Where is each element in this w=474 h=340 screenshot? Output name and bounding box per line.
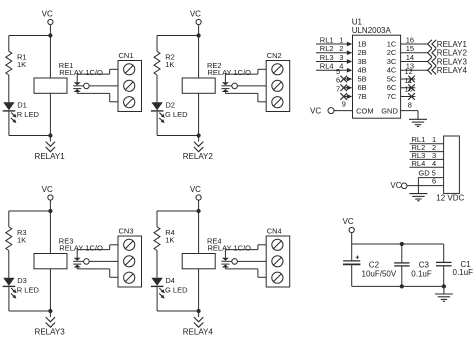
junction node output bbox=[48, 309, 52, 313]
relay common pole bbox=[229, 85, 231, 87]
svg-text:7C: 7C bbox=[387, 92, 397, 101]
net RL1 input wire to U1 pin 1 bbox=[316, 43, 347, 45]
wire coil to output node bbox=[49, 93, 51, 135]
svg-text:6: 6 bbox=[336, 76, 340, 85]
svg-text:RELAY 1C/O: RELAY 1C/O bbox=[59, 68, 103, 77]
CN3 terminal 2 bbox=[124, 256, 135, 267]
relay RE2 coil RELAY 1C/O bbox=[182, 78, 215, 93]
svg-text:7B: 7B bbox=[358, 92, 367, 101]
wire LED cathode to output node bbox=[8, 287, 10, 311]
off-page connector RELAY1 bbox=[49, 136, 51, 142]
capacitor C2 10uF/50V electrolytic bbox=[356, 256, 359, 258]
wire resistor to LED bbox=[8, 251, 10, 278]
svg-text:RELAY1: RELAY1 bbox=[437, 40, 468, 49]
svg-text:RL4: RL4 bbox=[412, 159, 426, 168]
svg-text:VC: VC bbox=[190, 10, 201, 19]
svg-text:5C: 5C bbox=[387, 74, 397, 83]
wire NO contact to connector pin 1 bbox=[77, 249, 110, 251]
wire NO contact to connector pin 1 bbox=[225, 249, 258, 251]
wire LED cathode to output node bbox=[156, 112, 158, 136]
wire top bus bbox=[352, 243, 444, 245]
connector CN4 screw terminal bbox=[266, 236, 290, 287]
svg-text:1K: 1K bbox=[17, 60, 26, 69]
relay common pole bbox=[229, 260, 231, 262]
wire NC contact to connector pin 3 bbox=[77, 268, 110, 270]
svg-text:6B: 6B bbox=[358, 83, 367, 92]
svg-text:9: 9 bbox=[342, 99, 346, 108]
svg-text:U1: U1 bbox=[352, 17, 363, 26]
relay NC contact bbox=[73, 263, 81, 265]
CN4 terminal 1 bbox=[272, 239, 283, 250]
svg-text:RELAY2: RELAY2 bbox=[183, 152, 214, 161]
svg-text:G LED: G LED bbox=[165, 110, 188, 119]
LED D2 G LED bbox=[151, 102, 162, 110]
wire resistor to LED bbox=[8, 75, 10, 102]
wire VC vertical to relay coil bbox=[49, 25, 51, 78]
svg-text:10uF/50V: 10uF/50V bbox=[362, 269, 397, 278]
wire junction to resistor bbox=[9, 210, 51, 212]
U1 pin 7 no-connect bbox=[344, 96, 347, 98]
relay common pole bbox=[81, 260, 83, 262]
wire NO contact to connector pin 1 bbox=[77, 73, 110, 75]
net RL4 input wire to U1 pin 4 bbox=[316, 69, 347, 71]
svg-text:C3: C3 bbox=[419, 260, 430, 269]
svg-text:1C: 1C bbox=[387, 39, 397, 48]
wire VC to COM bbox=[334, 110, 353, 112]
svg-text:5B: 5B bbox=[358, 74, 367, 83]
svg-text:CN1: CN1 bbox=[119, 51, 134, 60]
relay NO contact bbox=[224, 74, 226, 82]
net RL3 input wire to U1 pin 3 bbox=[316, 61, 347, 63]
svg-text:VC: VC bbox=[42, 10, 53, 19]
net RL3 wire to input connector pin 3 bbox=[410, 158, 444, 160]
wire coil to output node bbox=[198, 93, 200, 135]
svg-text:7: 7 bbox=[336, 84, 340, 93]
svg-text:10: 10 bbox=[405, 85, 413, 94]
CN3 terminal 1 bbox=[124, 239, 135, 250]
svg-text:14: 14 bbox=[406, 53, 414, 62]
resistor R3 1K bbox=[6, 227, 12, 251]
ground symbol U1 bbox=[409, 118, 427, 120]
CN1 terminal 3 bbox=[124, 97, 135, 108]
svg-text:VC: VC bbox=[390, 181, 401, 190]
CN2 terminal 3 bbox=[272, 97, 283, 108]
svg-text:VC: VC bbox=[343, 217, 354, 226]
wire VC vertical to relay coil bbox=[49, 200, 51, 253]
connector CN2 screw terminal bbox=[266, 61, 290, 112]
wire U1 GND pin 8 bbox=[401, 110, 418, 112]
capacitor C3 0.1uF bbox=[401, 244, 403, 262]
svg-text:RELAY3: RELAY3 bbox=[437, 57, 468, 66]
svg-text:RELAY 1C/O: RELAY 1C/O bbox=[59, 244, 103, 253]
wire VC to top bus bbox=[351, 233, 353, 261]
U1 pin 5 no-connect bbox=[344, 78, 347, 80]
wire NC contact to connector pin 3 bbox=[225, 92, 258, 94]
svg-text:GND: GND bbox=[381, 107, 398, 116]
svg-text:12: 12 bbox=[405, 67, 413, 76]
U1 pin 12 no-connect bbox=[401, 78, 416, 80]
svg-text:VC: VC bbox=[310, 106, 321, 115]
svg-text:16: 16 bbox=[406, 35, 414, 44]
net RELAY2 output from U1 pin 15 bbox=[401, 52, 428, 54]
svg-text:G LED: G LED bbox=[165, 285, 188, 294]
svg-text:3: 3 bbox=[339, 53, 343, 62]
svg-text:COM: COM bbox=[356, 107, 374, 116]
svg-text:6C: 6C bbox=[387, 83, 397, 92]
svg-text:VC: VC bbox=[42, 185, 53, 194]
CN3 terminal 3 bbox=[124, 272, 135, 283]
svg-text:6: 6 bbox=[432, 177, 436, 186]
svg-text:RELAY4: RELAY4 bbox=[437, 66, 468, 75]
connector CN1 screw terminal bbox=[118, 61, 142, 112]
svg-text:D1: D1 bbox=[17, 100, 27, 109]
svg-text:1K: 1K bbox=[165, 60, 174, 69]
svg-text:D4: D4 bbox=[165, 276, 175, 285]
svg-text:RELAY 1C/O: RELAY 1C/O bbox=[208, 68, 252, 77]
LED D4 G LED bbox=[151, 278, 162, 286]
svg-text:5: 5 bbox=[336, 67, 340, 76]
U1 pin 11 no-connect bbox=[401, 87, 416, 89]
wire resistor to LED bbox=[156, 251, 158, 278]
wire coil to output node bbox=[198, 269, 200, 311]
svg-text:4: 4 bbox=[432, 159, 436, 168]
wire NC contact to connector pin 3 bbox=[225, 268, 258, 270]
junction node top bus at C3 bbox=[400, 242, 404, 246]
resistor R4 1K bbox=[154, 227, 160, 251]
wire NC contact to connector pin 3 bbox=[77, 92, 110, 94]
wire resistor to LED bbox=[156, 75, 158, 102]
svg-text:4C: 4C bbox=[387, 66, 397, 75]
wire VC vertical to relay coil bbox=[198, 200, 200, 253]
junction node output bbox=[197, 309, 201, 313]
wire bottom bus bbox=[352, 285, 444, 287]
svg-text:GD: GD bbox=[418, 168, 430, 177]
svg-text:15: 15 bbox=[406, 44, 414, 53]
svg-text:2B: 2B bbox=[358, 48, 367, 57]
svg-text:RELAY4: RELAY4 bbox=[183, 328, 214, 337]
relay RE4 coil RELAY 1C/O bbox=[182, 254, 215, 269]
svg-text:1K: 1K bbox=[17, 235, 26, 244]
wire junction to resistor bbox=[157, 210, 199, 212]
junction node bbox=[48, 209, 52, 213]
relay NO contact bbox=[76, 74, 78, 82]
junction node output bbox=[197, 133, 201, 137]
CN2 terminal 1 bbox=[272, 64, 283, 75]
net RL4 wire to input connector pin 4 bbox=[410, 166, 444, 168]
relay RE1 coil RELAY 1C/O bbox=[34, 78, 67, 93]
relay NC contact bbox=[221, 263, 229, 265]
svg-text:1B: 1B bbox=[358, 39, 367, 48]
wire C1 to bottom bus bbox=[443, 266, 445, 286]
ground symbol filter bbox=[435, 293, 453, 295]
LED D1 R LED bbox=[3, 102, 14, 110]
svg-text:RL1: RL1 bbox=[320, 35, 334, 44]
svg-text:RELAY2: RELAY2 bbox=[437, 49, 468, 58]
capacitor C1 0.1uF bbox=[443, 244, 445, 262]
wire junction to resistor bbox=[157, 35, 199, 37]
svg-text:RELAY 1C/O: RELAY 1C/O bbox=[208, 244, 252, 253]
LED D3 R LED bbox=[3, 278, 14, 286]
svg-text:RL2: RL2 bbox=[320, 44, 334, 53]
net RL1 wire to input connector pin 1 bbox=[410, 143, 444, 145]
wire C3 to bottom bus bbox=[401, 266, 403, 286]
svg-text:D3: D3 bbox=[17, 276, 27, 285]
svg-text:3B: 3B bbox=[358, 57, 367, 66]
svg-text:C2: C2 bbox=[369, 260, 380, 269]
net RL2 input wire to U1 pin 2 bbox=[316, 52, 347, 54]
svg-text:RL3: RL3 bbox=[320, 53, 334, 62]
svg-text:1K: 1K bbox=[165, 235, 174, 244]
svg-text:RL4: RL4 bbox=[320, 62, 334, 71]
net RL2 wire to input connector pin 2 bbox=[410, 151, 444, 153]
net RELAY4 output from U1 pin 13 bbox=[401, 69, 428, 71]
svg-text:CN3: CN3 bbox=[119, 227, 134, 236]
wire junction to resistor bbox=[9, 35, 51, 37]
svg-text:ULN2003A: ULN2003A bbox=[352, 26, 392, 35]
svg-text:RELAY3: RELAY3 bbox=[35, 328, 66, 337]
resistor R2 1K bbox=[154, 51, 160, 75]
svg-text:D2: D2 bbox=[165, 100, 175, 109]
CN4 terminal 2 bbox=[272, 256, 283, 267]
junction node bbox=[197, 209, 201, 213]
resistor R1 1K bbox=[6, 51, 12, 75]
relay NO contact bbox=[224, 250, 226, 258]
wire NO contact to connector pin 1 bbox=[225, 73, 258, 75]
wire common pole to connector pin 2 bbox=[237, 260, 266, 262]
connector CN3 screw terminal bbox=[118, 236, 142, 287]
svg-text:VC: VC bbox=[190, 185, 201, 194]
net GD wire to connector pin 5 bbox=[418, 177, 443, 179]
svg-text:2: 2 bbox=[339, 44, 343, 53]
ground symbol connector bbox=[409, 193, 427, 195]
svg-text:11: 11 bbox=[405, 76, 413, 85]
relay NC contact bbox=[221, 88, 229, 90]
junction node bbox=[197, 33, 201, 37]
svg-text:0.1uF: 0.1uF bbox=[411, 269, 432, 278]
wire LED cathode to output node bbox=[156, 287, 158, 311]
U1 pin 10 no-connect bbox=[401, 96, 416, 98]
junction node bottom bus at C1 bbox=[442, 284, 446, 288]
CN1 terminal 2 bbox=[124, 80, 135, 91]
U1 pin 6 no-connect bbox=[344, 87, 347, 89]
junction node bottom bus at C3 bbox=[400, 284, 404, 288]
CN1 terminal 1 bbox=[124, 64, 135, 75]
wire to ground bbox=[443, 286, 445, 294]
CN4 terminal 3 bbox=[272, 272, 283, 283]
relay NC contact bbox=[73, 88, 81, 90]
junction node output bbox=[48, 133, 52, 137]
wire coil to output node bbox=[49, 269, 51, 311]
junction node bbox=[48, 33, 52, 37]
svg-text:2C: 2C bbox=[387, 48, 397, 57]
wire LED cathode to output node bbox=[8, 112, 10, 136]
wire VC vertical to relay coil bbox=[198, 25, 200, 78]
svg-text:R LED: R LED bbox=[17, 285, 40, 294]
svg-text:R LED: R LED bbox=[17, 110, 40, 119]
off-page connector RELAY3 bbox=[49, 311, 51, 317]
CN2 terminal 2 bbox=[272, 80, 283, 91]
svg-text:4B: 4B bbox=[358, 66, 367, 75]
svg-text:RELAY1: RELAY1 bbox=[35, 152, 66, 161]
svg-text:12 VDC: 12 VDC bbox=[436, 193, 464, 202]
off-page connector RELAY2 bbox=[198, 136, 200, 142]
svg-text:CN4: CN4 bbox=[267, 227, 282, 236]
wire C2 to bottom bus bbox=[351, 265, 353, 287]
svg-text:1: 1 bbox=[339, 35, 343, 44]
off-page connector RELAY4 bbox=[198, 311, 200, 317]
relay NO contact bbox=[76, 250, 78, 258]
svg-text:8: 8 bbox=[408, 101, 412, 110]
svg-text:3C: 3C bbox=[387, 57, 397, 66]
svg-text:CN2: CN2 bbox=[267, 51, 282, 60]
relay common pole bbox=[81, 85, 83, 87]
net RELAY3 output from U1 pin 14 bbox=[401, 61, 428, 63]
wire common pole to connector pin 2 bbox=[89, 260, 118, 262]
svg-text:0.1uF: 0.1uF bbox=[453, 268, 474, 277]
wire common pole to connector pin 2 bbox=[237, 85, 266, 87]
wire common pole to connector pin 2 bbox=[89, 85, 118, 87]
connector J1 12 VDC input box bbox=[444, 136, 460, 193]
relay RE3 coil RELAY 1C/O bbox=[34, 254, 67, 269]
net RELAY1 output from U1 pin 16 bbox=[401, 43, 428, 45]
